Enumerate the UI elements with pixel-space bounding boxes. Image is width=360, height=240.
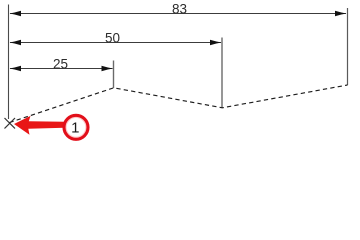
svg-text:83: 83	[172, 2, 187, 17]
svg-text:1: 1	[71, 119, 79, 136]
svg-text:25: 25	[53, 56, 68, 71]
svg-text:50: 50	[105, 31, 120, 46]
